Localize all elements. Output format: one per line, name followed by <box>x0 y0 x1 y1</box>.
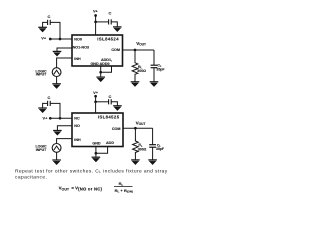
wire to capacitor CL <box>153 50 155 65</box>
junction <box>59 38 62 41</box>
svg-text:GND: GND <box>92 141 101 145</box>
ground <box>52 160 61 165</box>
ground <box>96 77 105 82</box>
resistor RL <box>132 61 138 75</box>
ground <box>148 160 157 165</box>
wire cap to ground <box>43 103 48 108</box>
capacitor CL <box>151 65 158 68</box>
label CL 35pF <box>156 64 165 72</box>
ground <box>131 82 140 87</box>
wire NO to ground <box>57 126 72 131</box>
svg-text:300Ω: 300Ω <box>137 69 146 73</box>
wire resistor to ground <box>134 75 136 81</box>
formula VOUT <box>59 181 133 194</box>
wire to capacitor CL <box>152 128 154 145</box>
terminal dot <box>94 95 97 98</box>
junction <box>94 100 97 103</box>
svg-text:ISL84524: ISL84524 <box>97 36 119 41</box>
wire resistor to ground <box>134 153 136 160</box>
capacitor C (bottom-left) <box>48 101 51 106</box>
wire COM to output node <box>123 49 155 51</box>
wire cap to ground <box>43 22 48 27</box>
svg-text:COM: COM <box>112 127 121 131</box>
terminal dot <box>49 38 52 41</box>
IC U2 ISL84525 <box>72 113 123 147</box>
junction <box>95 152 98 155</box>
svg-text:NO1-NO3: NO1-NO3 <box>73 45 89 49</box>
svg-text:NC: NC <box>74 117 80 121</box>
label CL 35pF <box>156 143 165 151</box>
capacitor C (supply decoupling, bottom) <box>109 99 112 104</box>
wire V+ to box top <box>95 96 97 113</box>
wire cap to ground <box>111 102 117 106</box>
svg-text:ADD: ADD <box>106 141 114 145</box>
wire COM to output node <box>123 127 153 129</box>
IC U1 ISL84524 <box>72 35 123 66</box>
capacitor C (supply decoupling, top) <box>109 19 112 24</box>
junction <box>134 49 137 52</box>
terminal dot <box>49 117 52 120</box>
svg-text:C: C <box>108 94 111 99</box>
wire junction down <box>100 72 102 77</box>
wire junction down <box>95 153 97 157</box>
wire V+ to NC <box>50 117 72 119</box>
svg-text:VOUT: VOUT <box>136 41 146 47</box>
svg-text:RL + R(ON): RL + R(ON) <box>115 188 133 194</box>
wire cap to ground <box>111 22 117 27</box>
ground <box>131 160 140 165</box>
svg-text:VOUT: VOUT <box>136 120 146 126</box>
ground <box>113 27 122 32</box>
svg-text:INPUT: INPUT <box>36 73 47 77</box>
svg-text:NO0: NO0 <box>74 37 82 41</box>
wire CL to ground <box>153 68 155 82</box>
junction <box>99 71 102 74</box>
svg-text:RL: RL <box>119 181 124 187</box>
ground <box>53 51 62 56</box>
svg-text:INPUT: INPUT <box>36 148 47 152</box>
wires GND/ADD pins to ground (top box) <box>101 66 112 72</box>
wire V+ to NO0 <box>50 38 72 40</box>
terminal dot <box>94 14 97 17</box>
svg-text:35pF: 35pF <box>156 67 165 71</box>
wire logic source to ground <box>56 152 58 160</box>
svg-text:300Ω: 300Ω <box>138 148 147 152</box>
svg-text:Repeat test for other switches: Repeat test for other switches. CL inclu… <box>15 168 168 174</box>
wire riser to cap C <box>50 103 60 118</box>
wire to resistor RL <box>134 50 136 61</box>
svg-text:C: C <box>47 95 50 100</box>
logic input source circle <box>52 144 61 153</box>
ground <box>52 84 61 89</box>
svg-text:V+: V+ <box>41 36 47 41</box>
ground <box>113 106 122 111</box>
svg-text:INH: INH <box>74 138 81 142</box>
label LOGIC INPUT <box>35 144 47 152</box>
junction <box>134 127 137 130</box>
wires GND/ADD pins to ground (bottom box) <box>96 147 108 154</box>
svg-text:capacitance.: capacitance. <box>15 175 47 181</box>
resistor RL <box>133 140 139 154</box>
svg-text:ISL84525: ISL84525 <box>98 114 120 119</box>
ground <box>53 131 62 136</box>
svg-text:C: C <box>47 14 50 19</box>
ground <box>38 27 47 32</box>
junction <box>59 117 62 120</box>
wire logic source to ground <box>56 77 58 84</box>
svg-text:V+: V+ <box>93 9 99 14</box>
ground <box>38 108 47 113</box>
capacitor C (top-left) <box>48 20 51 25</box>
svg-text:V+: V+ <box>93 90 99 95</box>
svg-text:V+: V+ <box>43 116 49 121</box>
svg-text:COM: COM <box>111 48 120 52</box>
svg-text:INH: INH <box>74 57 81 61</box>
label RL 300 ohm <box>137 65 146 73</box>
ground <box>92 157 101 162</box>
wire V+ to box top <box>95 16 97 36</box>
capacitor CL <box>149 145 156 148</box>
label RL 300 ohm <box>138 143 147 151</box>
ground <box>150 82 159 87</box>
svg-text:35pF: 35pF <box>156 147 165 151</box>
wire INH to logic input <box>57 58 72 68</box>
wire CL to ground <box>152 147 154 160</box>
wire junction to cap <box>96 21 109 23</box>
svg-text:C: C <box>108 11 111 16</box>
wire junction to cap <box>96 101 109 103</box>
wire NO1-NO3 to ground <box>57 48 72 51</box>
svg-text:GND ADD0: GND ADD0 <box>90 62 109 66</box>
logic input source circle <box>52 68 61 77</box>
svg-text:NO: NO <box>74 124 80 128</box>
wire riser to cap C <box>50 22 60 39</box>
wire to resistor RL <box>134 128 136 140</box>
label LOGIC INPUT <box>35 69 47 76</box>
junction <box>94 21 97 24</box>
wire INH to logic input <box>57 139 72 144</box>
